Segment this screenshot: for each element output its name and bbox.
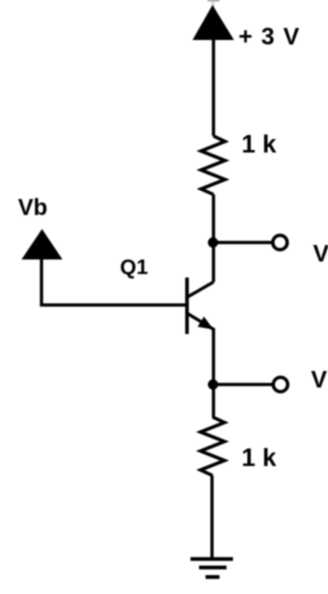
- Vc open terminal circle: [273, 235, 287, 249]
- wire node to Ve terminal: [213, 383, 272, 386]
- svg-text:+ 3 V: + 3 V: [239, 24, 301, 51]
- collector node dot: [208, 237, 218, 247]
- base wire: [42, 258, 188, 305]
- emitter wire to node: [212, 328, 215, 417]
- resistor R2: [201, 417, 225, 476]
- wire node to Vc terminal: [213, 241, 272, 244]
- svg-text:V: V: [311, 367, 327, 394]
- wire R2 to ground: [210, 476, 213, 560]
- Ve open terminal circle: [273, 377, 287, 391]
- svg-text:1 k: 1 k: [242, 131, 277, 159]
- resistor R1: [201, 136, 225, 195]
- svg-text:1 k: 1 k: [242, 444, 277, 472]
- clipped wire stub at top edge: [208, 0, 220, 1]
- svg-text:Q1: Q1: [120, 256, 148, 279]
- emitter node dot: [208, 379, 218, 389]
- svg-text:Vb: Vb: [18, 194, 47, 220]
- wire supply to R1: [212, 39, 215, 136]
- transistor Q1 collector lead: [188, 282, 214, 297]
- Vb source symbol (filled up arrow): [22, 229, 63, 260]
- wire R1 to collector node: [212, 195, 215, 283]
- ground symbol: [191, 557, 234, 561]
- transistor Q1 base bar: [185, 278, 189, 335]
- power supply +3V symbol (filled up arrow): [193, 5, 235, 40]
- transistor Q1 emitter lead with arrow: [188, 314, 214, 330]
- svg-text:V: V: [313, 241, 328, 268]
